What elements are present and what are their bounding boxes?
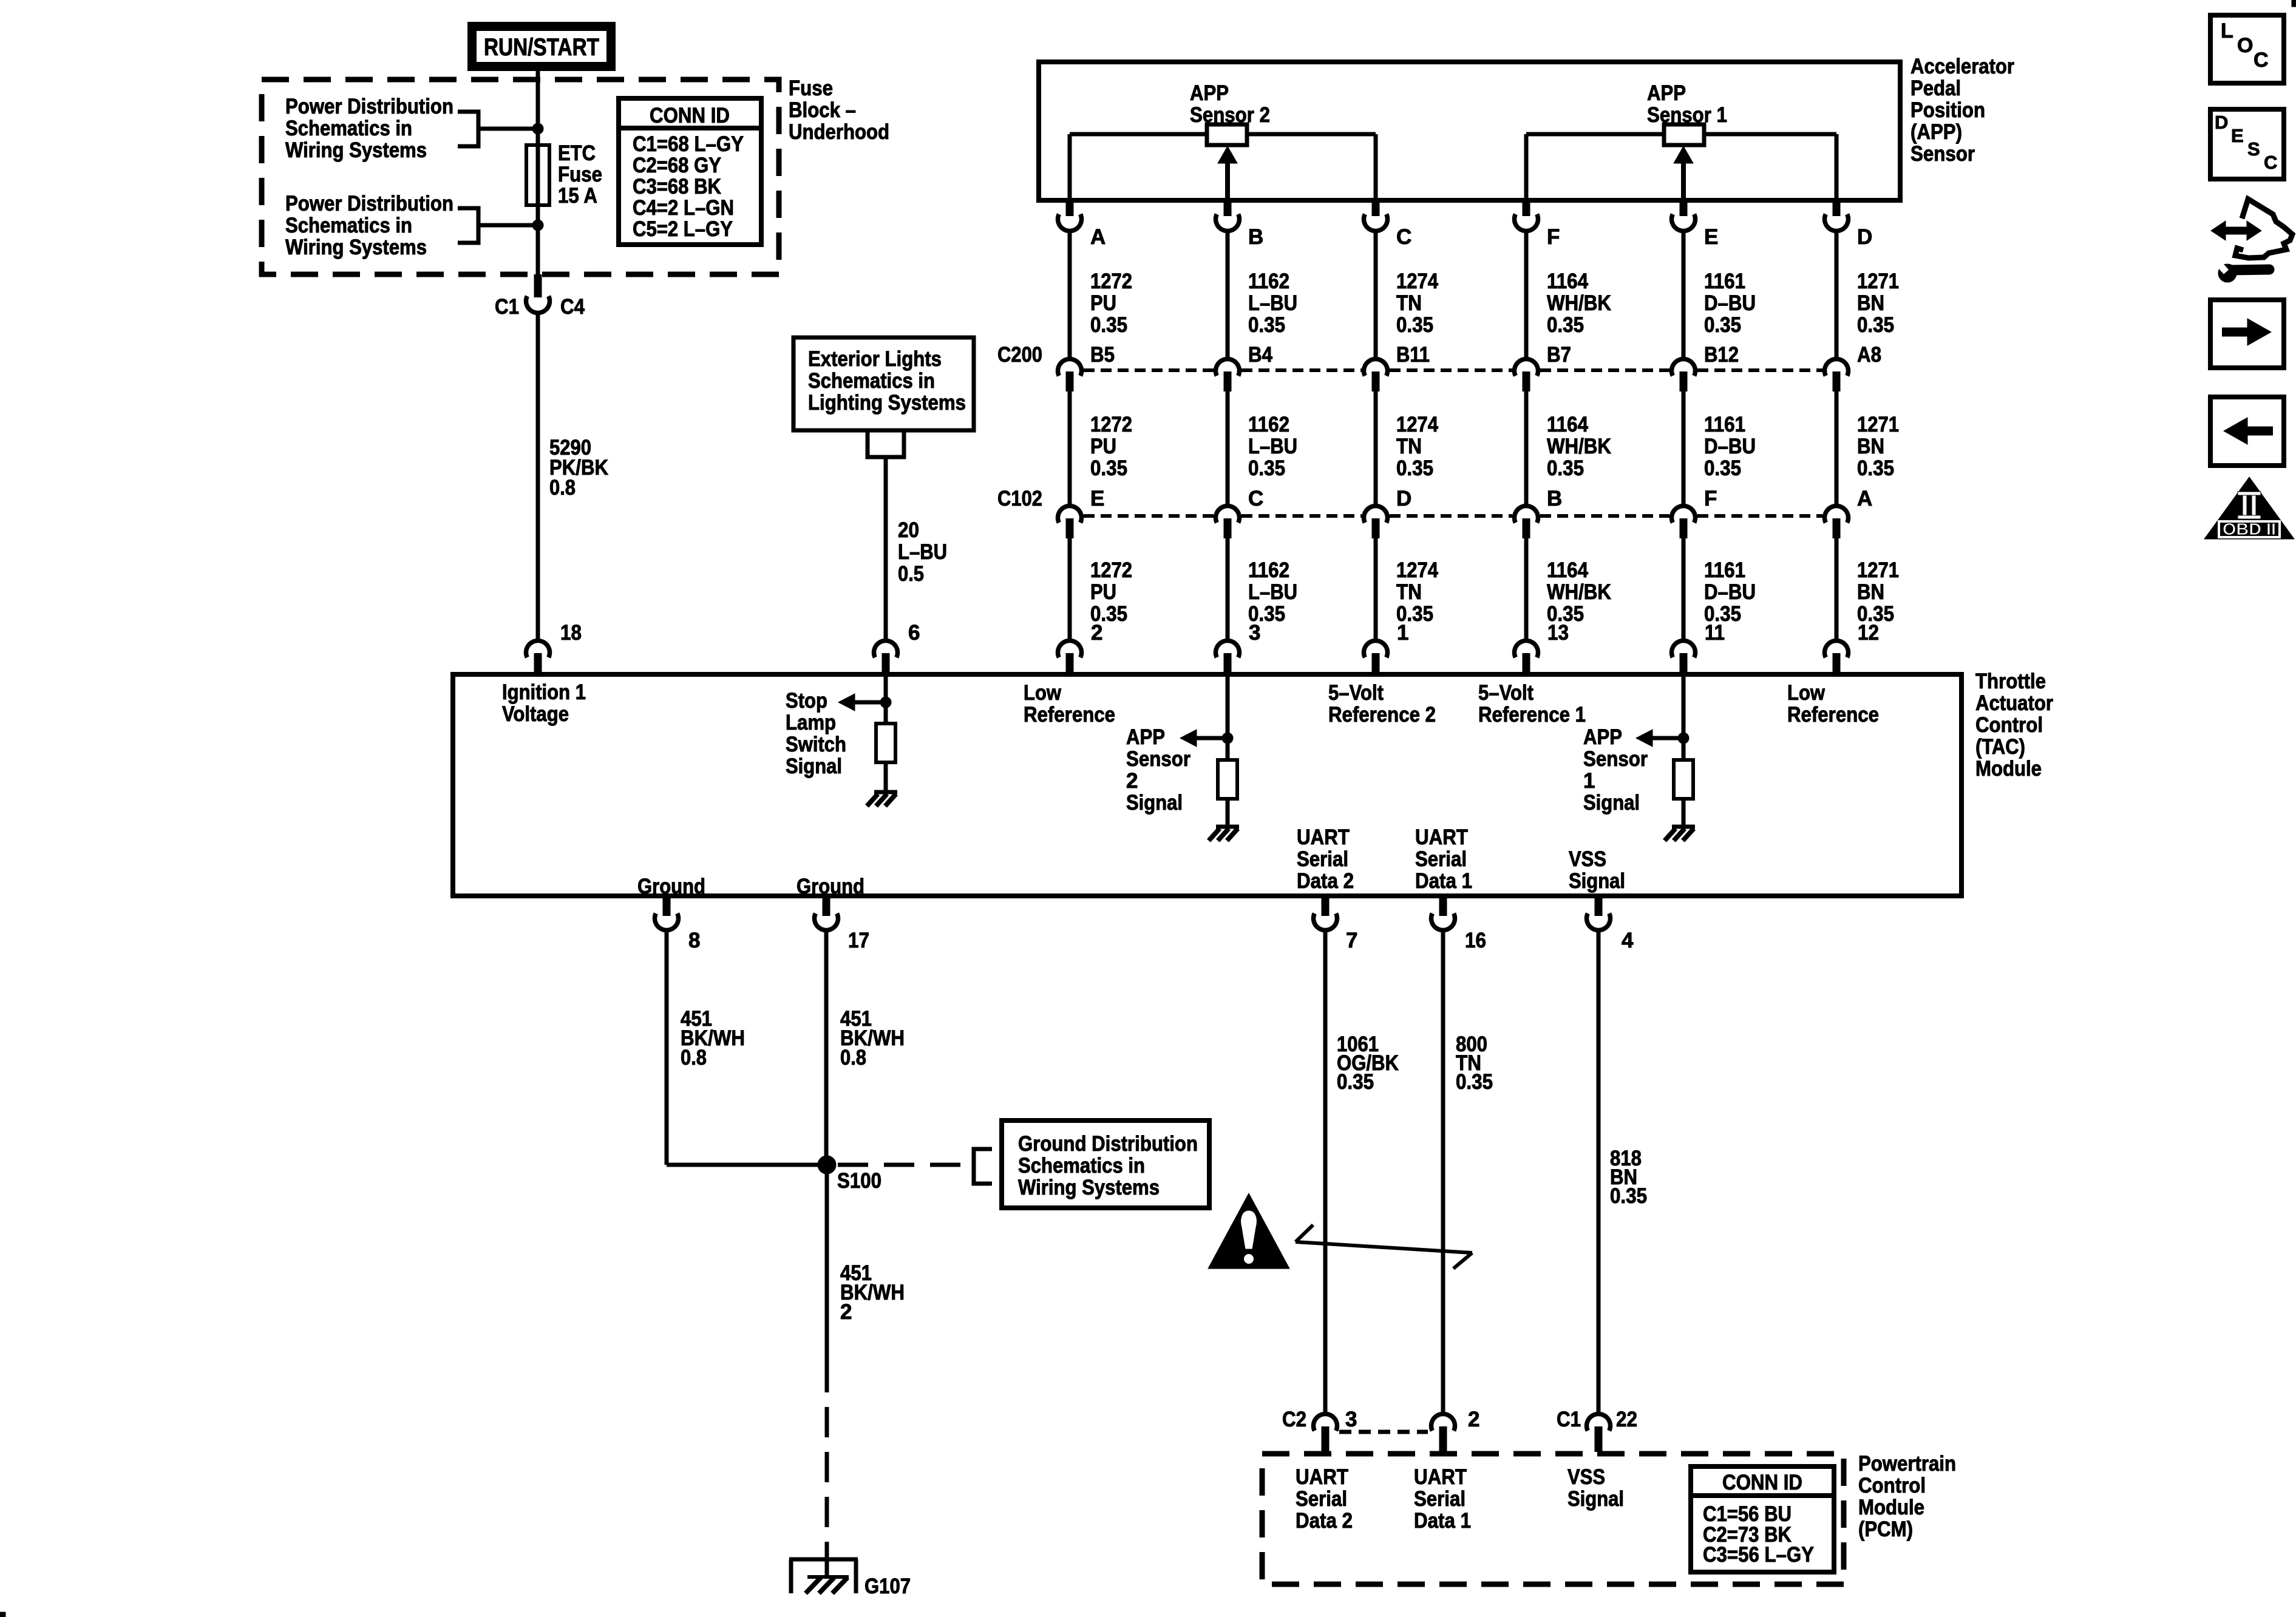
APP sensor assembly box xyxy=(1039,62,1900,200)
svg-text:Control: Control xyxy=(1858,1474,1926,1497)
svg-text:B: B xyxy=(1547,487,1562,510)
label: S100 xyxy=(837,1169,881,1193)
svg-text:UART: UART xyxy=(1297,825,1350,849)
wire 1164 WH/BK 0.35 (segment 2) xyxy=(1524,392,1529,505)
pin 18 (TAC ignition input) xyxy=(526,621,582,676)
svg-text:Wiring Systems: Wiring Systems xyxy=(1018,1176,1160,1199)
wire 1274 TN 0.35 (segment 2) xyxy=(1374,392,1378,505)
svg-text:PU: PU xyxy=(1090,291,1116,315)
svg-text:Accelerator: Accelerator xyxy=(1911,55,2014,78)
icon: wrench with double arrow xyxy=(2211,199,2292,282)
note: Power Distribution Schematics in Wiring Systems (upper) xyxy=(285,95,453,162)
wire 1162 L-BU 0.35 (segment 3) xyxy=(1226,538,1230,640)
svg-text:Module: Module xyxy=(1858,1496,1924,1519)
svg-text:G107: G107 xyxy=(864,1575,911,1598)
svg-text:Signal: Signal xyxy=(786,754,842,778)
label: Powertrain Control Module (PCM) xyxy=(1858,1452,1956,1541)
svg-text:11: 11 xyxy=(1705,621,1725,645)
svg-text:1164: 1164 xyxy=(1547,413,1588,436)
svg-text:L–BU: L–BU xyxy=(1248,580,1297,604)
TAC module box xyxy=(453,674,1961,896)
resistor: stop lamp pull-up xyxy=(876,724,895,762)
svg-text:APP: APP xyxy=(1190,81,1229,105)
svg-text:1164: 1164 xyxy=(1547,269,1588,293)
wire 20 L-BU 0.5 xyxy=(884,457,888,640)
label: 1271 BN 0.35 (1) xyxy=(1857,269,1899,337)
svg-text:(APP): (APP) xyxy=(1911,120,1962,144)
svg-text:CONN ID: CONN ID xyxy=(1722,1471,1802,1494)
label: 1272 PU 0.35 (3) xyxy=(1090,558,1132,626)
svg-text:Ignition 1: Ignition 1 xyxy=(502,680,586,704)
icon: OBD II triangle xyxy=(2204,477,2294,539)
TAC module pin 12 xyxy=(1825,621,1880,676)
svg-text:13: 13 xyxy=(1547,621,1569,645)
svg-text:E: E xyxy=(2231,125,2244,146)
bracket to ground distribution note xyxy=(974,1149,992,1184)
svg-text:B12: B12 xyxy=(1704,343,1739,367)
svg-text:Schematics in: Schematics in xyxy=(285,117,412,140)
svg-text:B11: B11 xyxy=(1396,343,1430,367)
wire 800 TN 0.35 xyxy=(1441,932,1445,1413)
svg-text:3: 3 xyxy=(1345,1408,1357,1431)
svg-text:C5=2 L–GY: C5=2 L–GY xyxy=(633,217,733,241)
label: Throttle Actuator Control (TAC) Module xyxy=(1975,670,2053,781)
svg-text:Wiring Systems: Wiring Systems xyxy=(285,236,427,259)
TAC module pin 7 (bottom) xyxy=(1314,898,1358,952)
svg-text:0.35: 0.35 xyxy=(1337,1070,1374,1094)
svg-text:C2: C2 xyxy=(1282,1408,1306,1431)
svg-text:Sensor: Sensor xyxy=(1583,747,1648,771)
svg-text:C: C xyxy=(1248,487,1263,510)
svg-text:0.35: 0.35 xyxy=(1857,456,1894,480)
label: 451 BK/WH 0.8 (pin 17) xyxy=(840,1007,905,1070)
arrow: stop lamp switch signal xyxy=(838,694,886,711)
svg-text:20: 20 xyxy=(898,518,919,542)
APP sensor connector pin E xyxy=(1672,200,1719,249)
svg-text:TN: TN xyxy=(1396,291,1422,315)
wire: RUN/START to fuse block xyxy=(536,71,540,83)
svg-text:Control: Control xyxy=(1975,713,2043,737)
fuse ETC 15 A xyxy=(526,145,549,205)
svg-text:1164: 1164 xyxy=(1547,558,1588,582)
svg-text:Module: Module xyxy=(1975,757,2042,781)
in-line connector C102 pin D xyxy=(1364,487,1412,538)
svg-text:0.35: 0.35 xyxy=(1248,313,1285,337)
in-line connector C200 pin A8 xyxy=(1825,343,1882,392)
wire 1161 D-BU 0.35 (segment 2) xyxy=(1682,392,1686,505)
svg-text:D–BU: D–BU xyxy=(1704,291,1756,315)
svg-text:D: D xyxy=(1396,487,1411,510)
dashed connector line C2 xyxy=(1339,1430,1428,1434)
wire 1271 BN 0.35 (segment 3) xyxy=(1835,538,1839,640)
svg-text:C4=2 L–GN: C4=2 L–GN xyxy=(633,196,734,220)
svg-text:Data 2: Data 2 xyxy=(1297,869,1354,893)
svg-text:1271: 1271 xyxy=(1857,269,1899,293)
label: connector C200 xyxy=(997,343,1042,367)
svg-text:(PCM): (PCM) xyxy=(1858,1517,1913,1541)
wire: resistor to ground (APP 2) xyxy=(1226,799,1230,827)
ground (stop lamp internal) xyxy=(867,792,897,806)
svg-text:B4: B4 xyxy=(1248,343,1272,367)
svg-text:Pedal: Pedal xyxy=(1911,76,1961,100)
svg-text:Schematics in: Schematics in xyxy=(285,214,412,237)
svg-text:Wiring Systems: Wiring Systems xyxy=(285,138,427,162)
svg-text:C1=68 L–GY: C1=68 L–GY xyxy=(633,132,744,156)
label: 1161 D-BU 0.35 (3) xyxy=(1704,558,1756,626)
TAC module pin 11 xyxy=(1672,621,1725,676)
in-line connector C102 pin B xyxy=(1515,487,1563,538)
svg-text:1271: 1271 xyxy=(1857,558,1899,582)
ground (APP sensor 2 internal) xyxy=(1209,827,1239,841)
wire: branch to lower note xyxy=(478,223,538,228)
svg-text:WH/BK: WH/BK xyxy=(1547,580,1611,604)
svg-text:Fuse: Fuse xyxy=(558,163,602,186)
wire 1271 BN 0.35 (segment 1) xyxy=(1835,232,1839,358)
svg-text:0.5: 0.5 xyxy=(898,562,924,586)
svg-text:Ground: Ground xyxy=(796,875,864,898)
svg-text:1272: 1272 xyxy=(1090,269,1132,293)
wire 1274 TN 0.35 (segment 1) xyxy=(1374,232,1378,358)
svg-text:Lamp: Lamp xyxy=(786,711,836,734)
wire 1061 OG/BK 0.35 xyxy=(1323,932,1328,1413)
note arrow crossing serial data wires xyxy=(1296,1225,1472,1269)
svg-text:D: D xyxy=(1857,225,1872,249)
icon: right arrow box xyxy=(2210,300,2284,368)
in-line connector C200 pin B12 xyxy=(1672,343,1739,392)
wire: branch to upper note xyxy=(478,127,538,131)
svg-text:1: 1 xyxy=(1397,621,1408,645)
svg-text:D: D xyxy=(2215,112,2228,133)
label: UART Serial Data 2 (PCM) xyxy=(1296,1465,1353,1533)
icon: left arrow box xyxy=(2210,397,2284,466)
svg-text:17: 17 xyxy=(848,929,869,952)
label: 451 BK/WH 2 xyxy=(840,1261,905,1324)
label: 5-Volt Reference 2 xyxy=(1328,681,1436,727)
label: 1164 WH/BK 0.35 (1) xyxy=(1547,269,1611,337)
label: APP Sensor 2 Signal xyxy=(1126,725,1190,815)
label: 1162 L-BU 0.35 (3) xyxy=(1248,558,1297,626)
svg-text:Signal: Signal xyxy=(1567,1487,1624,1511)
svg-text:0.35: 0.35 xyxy=(1248,456,1285,480)
svg-text:Actuator: Actuator xyxy=(1975,691,2053,715)
wire 1162 L-BU 0.35 (segment 2) xyxy=(1226,392,1230,505)
bracket to lower note xyxy=(458,208,478,243)
wire: resistor to ground (stop lamp) xyxy=(884,762,888,792)
svg-text:1272: 1272 xyxy=(1090,413,1132,436)
svg-text:PU: PU xyxy=(1090,435,1116,458)
svg-text:5–Volt: 5–Volt xyxy=(1478,681,1533,705)
svg-text:Voltage: Voltage xyxy=(502,702,569,726)
svg-text:UART: UART xyxy=(1415,825,1468,849)
wire into G107 xyxy=(825,1545,829,1577)
svg-text:BN: BN xyxy=(1857,580,1884,604)
svg-text:7: 7 xyxy=(1346,929,1357,952)
wire 1272 PU 0.35 (segment 2) xyxy=(1068,392,1072,505)
svg-text:Serial: Serial xyxy=(1297,847,1348,871)
svg-text:CONN ID: CONN ID xyxy=(650,104,730,127)
svg-text:B: B xyxy=(1248,225,1263,249)
svg-text:Switch: Switch xyxy=(786,733,846,756)
label: Stop Lamp Switch Signal xyxy=(786,689,846,778)
corner tick (top right) xyxy=(2292,0,2296,7)
PCM module box (dashed) xyxy=(1262,1454,1844,1584)
svg-text:(TAC): (TAC) xyxy=(1975,735,2025,759)
svg-text:1162: 1162 xyxy=(1248,558,1289,582)
wire 1161 D-BU 0.35 (segment 1) xyxy=(1682,232,1686,358)
wire 451 BK/WH 0.8 (pin 17) xyxy=(824,931,829,1165)
label: connector C102 xyxy=(997,487,1042,510)
svg-text:L: L xyxy=(2221,19,2233,42)
label: Ignition 1 Voltage xyxy=(502,680,586,726)
label: Ground (pin 17) xyxy=(796,875,864,898)
APP sensor connector pin B xyxy=(1216,200,1264,249)
wire 1271 BN 0.35 (segment 2) xyxy=(1835,392,1839,505)
svg-text:Data 1: Data 1 xyxy=(1414,1509,1471,1533)
svg-text:VSS: VSS xyxy=(1569,847,1606,871)
svg-text:C: C xyxy=(1396,225,1411,249)
svg-text:Ground: Ground xyxy=(637,875,705,898)
wiper arrow APP sensor 1 xyxy=(1674,146,1693,198)
APP sensor connector pin D xyxy=(1825,200,1873,249)
note: Power Distribution Schematics in Wiring Systems (lower) xyxy=(285,192,453,259)
wire: APP sensor 1 signal internal xyxy=(1682,677,1686,760)
wire 451 BK/WH 0.8 (pin 8) xyxy=(667,931,827,1165)
svg-text:VSS: VSS xyxy=(1567,1465,1605,1489)
svg-text:Block –: Block – xyxy=(789,98,856,122)
connector ID table (fuse block) xyxy=(619,98,761,245)
svg-text:TN: TN xyxy=(1396,580,1422,604)
wire 1161 D-BU 0.35 (segment 3) xyxy=(1682,538,1686,640)
svg-text:0.35: 0.35 xyxy=(1396,313,1433,337)
svg-text:0.8: 0.8 xyxy=(549,476,576,500)
dashed connector line C102 xyxy=(1084,514,1822,518)
svg-text:2: 2 xyxy=(1126,769,1138,793)
svg-text:C200: C200 xyxy=(997,343,1042,367)
dashed tie: S100 to ground distribution note xyxy=(838,1163,972,1167)
svg-text:S100: S100 xyxy=(837,1169,881,1193)
wire 451 BK/WH 2 (solid) xyxy=(825,1173,829,1392)
wire: stop lamp signal internal xyxy=(884,677,888,724)
svg-text:L–BU: L–BU xyxy=(1248,435,1297,458)
wire 1272 PU 0.35 (segment 1) xyxy=(1068,232,1072,358)
TAC module pin 16 (bottom) xyxy=(1432,898,1487,952)
svg-text:0.35: 0.35 xyxy=(1090,313,1127,337)
label: Fuse Block - Underhood xyxy=(789,76,889,144)
in-line connector C102 pin A xyxy=(1825,487,1873,538)
label: UART Serial Data 2 xyxy=(1297,825,1354,893)
svg-text:L–BU: L–BU xyxy=(1248,291,1297,315)
svg-text:2: 2 xyxy=(1468,1408,1479,1431)
in-line connector C200 pin B7 xyxy=(1515,343,1572,392)
label: 1162 L-BU 0.35 (2) xyxy=(1248,413,1297,480)
connector C1 / C4 xyxy=(495,274,585,319)
wire 1162 L-BU 0.35 (segment 1) xyxy=(1226,232,1230,358)
svg-text:Signal: Signal xyxy=(1583,791,1640,815)
svg-text:L–BU: L–BU xyxy=(898,540,947,564)
svg-text:Fuse: Fuse xyxy=(789,76,833,100)
warning triangle (caution note) xyxy=(1208,1193,1289,1269)
bracket under exterior lights box xyxy=(868,430,904,457)
fuse block box (dashed) xyxy=(262,80,779,274)
svg-text:0.8: 0.8 xyxy=(840,1046,866,1070)
label: VSS Signal xyxy=(1569,847,1625,893)
svg-text:WH/BK: WH/BK xyxy=(1547,291,1611,315)
svg-text:18: 18 xyxy=(560,621,582,645)
svg-text:S: S xyxy=(2247,138,2260,160)
label: 1271 BN 0.35 (2) xyxy=(1857,413,1899,480)
svg-text:PU: PU xyxy=(1090,580,1116,604)
svg-text:2: 2 xyxy=(840,1300,852,1324)
label: G107 xyxy=(864,1575,911,1598)
TAC module pin 8 (bottom) xyxy=(655,898,701,952)
label: ETC Fuse 15 A xyxy=(558,141,602,208)
wire: ignition feed through fuse block xyxy=(536,83,540,274)
label: 1272 PU 0.35 (2) xyxy=(1090,413,1132,480)
svg-text:C102: C102 xyxy=(997,487,1042,510)
svg-text:ETC: ETC xyxy=(558,141,596,165)
svg-text:3: 3 xyxy=(1249,621,1260,645)
TAC module pin 3 xyxy=(1216,621,1261,676)
svg-text:BN: BN xyxy=(1857,291,1884,315)
resistor: APP sensor 1 pull xyxy=(1674,760,1693,799)
svg-text:TN: TN xyxy=(1396,435,1422,458)
svg-text:0.35: 0.35 xyxy=(1547,456,1584,480)
label: 1061 OG/BK 0.35 xyxy=(1337,1032,1399,1094)
APP sensor connector pin C xyxy=(1364,200,1411,249)
svg-text:C: C xyxy=(2254,49,2269,72)
in-line connector C102 pin F xyxy=(1672,487,1717,538)
svg-text:UART: UART xyxy=(1296,1465,1348,1489)
wire 5290 PK/BK 0.8 xyxy=(536,311,540,640)
svg-text:5–Volt: 5–Volt xyxy=(1328,681,1384,705)
potentiometer APP sensor 2 xyxy=(1070,124,1376,198)
svg-text:1161: 1161 xyxy=(1704,558,1745,582)
wire 1272 PU 0.35 (segment 3) xyxy=(1068,538,1072,640)
svg-text:22: 22 xyxy=(1616,1408,1637,1431)
ground (APP sensor 1 internal) xyxy=(1665,827,1695,841)
in-line connector C200 pin B5 xyxy=(1058,343,1115,392)
svg-text:Low: Low xyxy=(1787,681,1826,705)
svg-text:Reference 1: Reference 1 xyxy=(1478,703,1586,727)
note box: Ground Distribution Schematics in Wiring Systems xyxy=(1002,1120,1209,1208)
svg-text:C3=68 BK: C3=68 BK xyxy=(633,175,721,198)
svg-text:UART: UART xyxy=(1414,1465,1467,1489)
svg-text:C: C xyxy=(2264,152,2277,173)
svg-text:APP: APP xyxy=(1583,725,1622,749)
svg-text:1161: 1161 xyxy=(1704,413,1745,436)
svg-text:Reference: Reference xyxy=(1787,703,1879,727)
svg-text:Stop: Stop xyxy=(786,689,827,713)
label: UART Serial Data 1 (PCM) xyxy=(1414,1465,1471,1533)
svg-text:Sensor: Sensor xyxy=(1126,747,1190,771)
svg-text:B5: B5 xyxy=(1090,343,1115,367)
svg-text:12: 12 xyxy=(1858,621,1879,645)
label: 1162 L-BU 0.35 (1) xyxy=(1248,269,1297,337)
svg-text:C1: C1 xyxy=(495,295,519,319)
svg-text:E: E xyxy=(1704,225,1718,249)
wire 451 BK/WH 2 (dashed) xyxy=(825,1392,829,1545)
svg-text:Low: Low xyxy=(1024,681,1062,705)
wiper arrow APP sensor 2 xyxy=(1218,146,1237,198)
svg-text:0.35: 0.35 xyxy=(1456,1070,1493,1094)
svg-text:WH/BK: WH/BK xyxy=(1547,435,1611,458)
svg-text:A: A xyxy=(1857,487,1872,510)
svg-text:1162: 1162 xyxy=(1248,413,1289,436)
svg-text:0.35: 0.35 xyxy=(1704,456,1741,480)
PCM connector C1 pin 22 xyxy=(1557,1408,1637,1452)
note box: Exterior Lights Schematics in Lighting Systems xyxy=(793,337,974,430)
svg-text:Schematics in: Schematics in xyxy=(808,369,935,393)
in-line connector C102 pin E xyxy=(1058,487,1105,538)
svg-text:Underhood: Underhood xyxy=(789,120,889,144)
svg-text:APP: APP xyxy=(1647,81,1686,105)
svg-text:Serial: Serial xyxy=(1296,1487,1347,1511)
connector ID table (PCM) xyxy=(1691,1466,1834,1572)
label: Low Reference (left) xyxy=(1024,681,1115,727)
wire 1164 WH/BK 0.35 (segment 1) xyxy=(1524,232,1529,358)
svg-text:Reference: Reference xyxy=(1024,703,1115,727)
svg-text:Ground Distribution: Ground Distribution xyxy=(1018,1132,1198,1156)
svg-text:A: A xyxy=(1090,225,1106,249)
svg-text:O: O xyxy=(2237,34,2253,57)
wire 1164 WH/BK 0.35 (segment 3) xyxy=(1524,538,1529,640)
arrow: APP sensor 2 signal xyxy=(1180,730,1228,747)
svg-text:1271: 1271 xyxy=(1857,413,1899,436)
TAC module pin 17 (bottom) xyxy=(815,898,870,952)
ground G107 xyxy=(789,1559,858,1593)
svg-text:1272: 1272 xyxy=(1090,558,1132,582)
APP sensor connector pin F xyxy=(1515,200,1560,249)
svg-text:0.35: 0.35 xyxy=(1857,313,1894,337)
svg-text:B7: B7 xyxy=(1547,343,1571,367)
svg-text:Signal: Signal xyxy=(1126,791,1183,815)
svg-text:0.8: 0.8 xyxy=(681,1046,707,1070)
icon: DESC box xyxy=(2210,109,2284,179)
wire 1274 TN 0.35 (segment 3) xyxy=(1374,538,1378,640)
label: 20 L-BU 0.5 xyxy=(898,518,947,586)
potentiometer APP sensor 1 xyxy=(1526,124,1836,198)
svg-text:RUN/START: RUN/START xyxy=(484,34,599,61)
svg-text:15 A: 15 A xyxy=(558,184,597,208)
PCM connector pin 2 xyxy=(1432,1408,1480,1452)
label: 1274 TN 0.35 (1) xyxy=(1396,269,1438,337)
TAC module pin 1 xyxy=(1364,621,1409,676)
svg-text:A8: A8 xyxy=(1857,343,1881,367)
label: 800 TN 0.35 xyxy=(1456,1032,1493,1094)
svg-text:Sensor: Sensor xyxy=(1911,142,1975,166)
svg-text:16: 16 xyxy=(1465,929,1486,952)
svg-text:0.35: 0.35 xyxy=(1396,456,1433,480)
resistor: APP sensor 2 pull xyxy=(1218,760,1237,799)
bracket to upper note xyxy=(458,112,478,146)
svg-text:C3=56 L–GY: C3=56 L–GY xyxy=(1703,1543,1814,1567)
wire: resistor to ground (APP 1) xyxy=(1682,799,1686,827)
svg-text:1274: 1274 xyxy=(1396,558,1438,582)
label: 818 BN 0.35 xyxy=(1610,1147,1647,1208)
TAC module pin 13 xyxy=(1515,621,1569,676)
label: 451 BK/WH 0.8 (pin 8) xyxy=(681,1007,745,1070)
svg-text:D–BU: D–BU xyxy=(1704,580,1756,604)
svg-text:Serial: Serial xyxy=(1414,1487,1466,1511)
TAC module pin 4 (bottom) xyxy=(1587,898,1634,952)
label: 1161 D-BU 0.35 (1) xyxy=(1704,269,1756,337)
svg-text:C1: C1 xyxy=(1557,1408,1581,1431)
svg-text:4: 4 xyxy=(1622,929,1634,952)
svg-text:Power Distribution: Power Distribution xyxy=(285,192,453,215)
svg-text:Reference 2: Reference 2 xyxy=(1328,703,1436,727)
svg-text:F: F xyxy=(1704,487,1717,510)
dashed connector line C200 xyxy=(1084,368,1822,372)
